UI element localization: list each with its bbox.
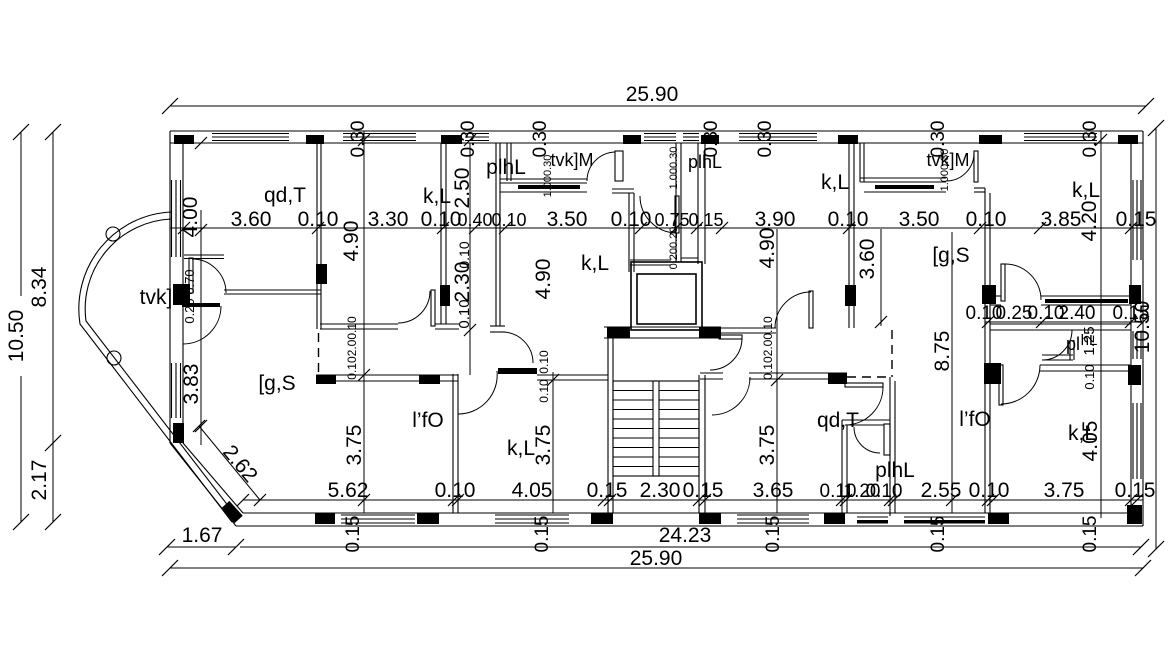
column bottom wall bbox=[315, 513, 335, 524]
wire plhL east wall bbox=[676, 143, 681, 262]
svg-text:24.23: 24.23 bbox=[659, 524, 712, 547]
dim text 3.30 row A bbox=[368, 208, 409, 231]
wire diagonal wall outer bbox=[170, 443, 236, 526]
svg-text:0.15: 0.15 bbox=[688, 210, 723, 230]
door hall to l'fO bbox=[458, 371, 497, 414]
wire niche1 sill bbox=[500, 179, 587, 183]
column bottom wall bbox=[824, 513, 845, 524]
dim text 0.10 row A bbox=[491, 210, 526, 230]
door hall to k,L center bbox=[502, 332, 533, 363]
dim text 2.40 row C bbox=[1059, 303, 1096, 324]
svg-text:plhL: plhL bbox=[486, 156, 526, 179]
label tvk]M right bbox=[927, 150, 970, 170]
dim text 0.15 bottom x1092 bbox=[1080, 516, 1101, 553]
wire apt2 hall south wall bbox=[700, 373, 847, 379]
svg-text:0.102.00.10: 0.102.00.10 bbox=[345, 316, 359, 380]
label qd,T bottom bbox=[817, 409, 859, 432]
window niche1 bbox=[500, 185, 587, 192]
wire niche2 west wall bbox=[860, 143, 864, 182]
dim line row B bbox=[237, 494, 1143, 506]
dim 4.90 c bbox=[756, 228, 779, 269]
svg-text:0.15: 0.15 bbox=[928, 516, 949, 553]
svg-text:[g,S: [g,S bbox=[258, 372, 295, 395]
dim text 3.60 row A bbox=[231, 208, 272, 231]
svg-text:0.70: 0.70 bbox=[182, 269, 197, 294]
door plhL2 bbox=[854, 424, 890, 455]
wire duct bottom bbox=[681, 258, 698, 262]
svg-text:hL: hL bbox=[1081, 332, 1098, 349]
node gS door sill bbox=[182, 303, 220, 307]
window left wall lower bbox=[172, 363, 181, 418]
label plhL bottom bbox=[875, 459, 915, 482]
svg-text:2.50: 2.50 bbox=[451, 168, 474, 209]
column l'fO north west bbox=[316, 375, 336, 384]
node hall wall stub bbox=[498, 368, 537, 374]
svg-text:0.10: 0.10 bbox=[537, 350, 551, 374]
label tvk] entry bbox=[140, 286, 173, 309]
column left wall mid bbox=[173, 284, 190, 305]
dim 10.50 right bbox=[1131, 120, 1164, 557]
column bottom wall bbox=[988, 513, 1009, 524]
node tick top wall col1 bbox=[195, 137, 207, 149]
wire duct east wall bbox=[698, 143, 705, 264]
wire balcony arc inner bbox=[85, 219, 236, 516]
wire exterior bottom wall bbox=[236, 513, 1143, 526]
column right wall c bbox=[1127, 505, 1142, 524]
dim text 0.10 row A bbox=[421, 208, 462, 231]
wire plhL2 west wall bbox=[842, 420, 847, 513]
column top wall bbox=[174, 135, 194, 144]
svg-text:l’fO: l’fO bbox=[412, 409, 444, 432]
svg-text:3.60: 3.60 bbox=[856, 239, 879, 280]
dim 10.50 left bbox=[5, 124, 30, 530]
dim 3.75 vc bbox=[756, 425, 779, 466]
wire l'fO north wall bbox=[316, 375, 458, 381]
dim text 0.30 top x940 bbox=[928, 121, 949, 158]
svg-text:3.75: 3.75 bbox=[343, 425, 366, 466]
dim line x952 bbox=[946, 232, 958, 513]
dim 2.30 v bbox=[451, 262, 474, 303]
column apt2 hall south bbox=[828, 373, 847, 384]
wire wall qd,T east bbox=[317, 143, 321, 329]
wire balcony arc outer bbox=[79, 212, 232, 522]
svg-text:l’fO: l’fO bbox=[959, 408, 991, 431]
dim line x364 bbox=[358, 131, 370, 513]
svg-text:3.30: 3.30 bbox=[368, 208, 409, 231]
svg-text:0.15: 0.15 bbox=[1116, 208, 1157, 231]
window top wall bbox=[1024, 134, 1097, 141]
label [g,S left bbox=[258, 372, 295, 395]
svg-text:0.20: 0.20 bbox=[182, 298, 197, 323]
svg-text:tvk]M: tvk]M bbox=[551, 150, 594, 170]
label plhL top-center2 bbox=[688, 152, 722, 172]
wire hall north wall bbox=[320, 324, 505, 332]
dim text 0.75 row A bbox=[654, 210, 689, 230]
window niche2 bbox=[864, 185, 946, 192]
dim 4.00 left bbox=[179, 197, 202, 238]
dim stack b bbox=[537, 350, 551, 403]
dim stack plhL bbox=[668, 147, 680, 190]
svg-text:4.90: 4.90 bbox=[756, 228, 779, 269]
dim 1.25 bath right bbox=[1081, 326, 1098, 355]
dim text 0.15 bottom x544 bbox=[532, 516, 553, 553]
svg-text:1.67: 1.67 bbox=[182, 524, 223, 547]
wire wall qd,T south bbox=[224, 290, 321, 294]
window bottom wall bbox=[495, 515, 569, 523]
window right wall lower bbox=[1133, 403, 1141, 479]
svg-text:0.200.20: 0.200.20 bbox=[668, 227, 680, 270]
svg-text:0.10: 0.10 bbox=[611, 208, 652, 231]
wire plhL west wall bbox=[629, 193, 634, 272]
door gS entry bbox=[183, 306, 221, 344]
svg-text:k,L: k,L bbox=[581, 252, 609, 275]
svg-text:2.40: 2.40 bbox=[1059, 303, 1096, 324]
svg-text:0.15: 0.15 bbox=[587, 479, 628, 502]
svg-text:8.75: 8.75 bbox=[931, 331, 954, 372]
svg-text:0.15: 0.15 bbox=[343, 516, 364, 553]
label k,L bottom-right bbox=[1068, 422, 1096, 445]
window top wall bbox=[683, 134, 699, 141]
dim text 0.30 top x470 bbox=[458, 121, 479, 158]
column apt2 living east bbox=[845, 285, 856, 306]
dim text 4.05 row B bbox=[512, 479, 553, 502]
dim text 3.85 row A bbox=[1041, 208, 1082, 231]
svg-text:0.10: 0.10 bbox=[537, 379, 551, 403]
dim 3.83 left bbox=[180, 364, 203, 405]
wire wall qd,T east dashed bbox=[318, 333, 320, 375]
svg-text:tvk]M: tvk]M bbox=[927, 150, 970, 170]
svg-text:0.10: 0.10 bbox=[298, 208, 339, 231]
svg-text:0.10: 0.10 bbox=[828, 208, 869, 231]
wire right section west wall bbox=[985, 188, 990, 513]
wire stairwell top wall bbox=[604, 327, 721, 338]
dim stack a bbox=[345, 316, 359, 380]
dim text 0.30 top x360 bbox=[348, 121, 369, 158]
column l'fO north east bbox=[419, 375, 440, 384]
dim text 3.65 row B bbox=[753, 479, 794, 502]
window bottom wall bbox=[341, 515, 415, 523]
node balcony post lower bbox=[107, 351, 121, 365]
window top wall bbox=[343, 134, 416, 141]
dim stack niche2 bbox=[939, 149, 951, 192]
dim 4.20 bbox=[1078, 201, 1101, 242]
dim 4.90 a bbox=[340, 221, 363, 262]
svg-text:k,L: k,L bbox=[821, 171, 849, 194]
svg-text:0.10: 0.10 bbox=[456, 241, 472, 268]
dim text 2.30 row B bbox=[640, 479, 681, 502]
svg-text:3.60: 3.60 bbox=[231, 208, 272, 231]
dim 2.62 diagonal bbox=[193, 420, 266, 506]
window left wall upper bbox=[172, 180, 181, 257]
dim line x1101 bbox=[1095, 131, 1107, 518]
door k,L-left bbox=[398, 290, 435, 326]
dim text 0.30 top x713 bbox=[701, 121, 722, 158]
column top wall bbox=[838, 135, 858, 144]
dim 0.10 v bbox=[456, 299, 473, 328]
column top wall bbox=[979, 135, 1002, 144]
wire apt2 living east wall bbox=[849, 143, 854, 328]
wire shaft inner bbox=[637, 274, 696, 324]
door k,L right top bbox=[1001, 264, 1041, 301]
window top wall bbox=[739, 134, 817, 141]
label [g,S right bbox=[932, 244, 969, 267]
svg-text:3.50: 3.50 bbox=[899, 208, 940, 231]
label pl bath right bbox=[1066, 334, 1080, 354]
svg-text:pl: pl bbox=[1066, 334, 1080, 354]
column top wall bbox=[306, 135, 324, 144]
svg-text:3.75: 3.75 bbox=[756, 425, 779, 466]
column top wall bbox=[441, 135, 462, 144]
svg-text:3.50: 3.50 bbox=[547, 208, 588, 231]
dim 3.60 v bbox=[856, 239, 879, 280]
dim text 0.10 row A bbox=[298, 208, 339, 231]
svg-text:0.30: 0.30 bbox=[530, 121, 551, 158]
svg-text:0.10: 0.10 bbox=[435, 479, 476, 502]
svg-text:0.10: 0.10 bbox=[966, 208, 1007, 231]
door stair exit lower bbox=[712, 377, 750, 415]
stairs flight bbox=[613, 381, 699, 476]
dim text 0.15 row A bbox=[688, 210, 723, 230]
dim text 0.10 row B bbox=[969, 479, 1010, 502]
dim text 0.15 bottom x940 bbox=[928, 516, 949, 553]
column bottom wall bbox=[417, 513, 439, 524]
dim text 0.10 row B bbox=[820, 481, 857, 502]
svg-text:0.40: 0.40 bbox=[457, 210, 492, 230]
wire apt2 hall north wall bbox=[699, 328, 776, 333]
svg-text:4.05: 4.05 bbox=[1079, 421, 1102, 462]
svg-text:3.83: 3.83 bbox=[180, 364, 203, 405]
wire l'fO2 west wall bbox=[890, 377, 895, 516]
dim line row C bbox=[982, 316, 1149, 328]
dim 4.90 b bbox=[532, 259, 555, 300]
dim text 0.10 row C bbox=[1028, 303, 1065, 324]
svg-text:4.90: 4.90 bbox=[532, 259, 555, 300]
dim text 5.62 row B bbox=[328, 479, 369, 502]
dim text 0.15 row C bbox=[1113, 303, 1150, 324]
wire niche2 link wall bbox=[974, 188, 985, 192]
column top wall bbox=[1118, 135, 1138, 144]
dim 0.10 bath right bbox=[1082, 364, 1097, 389]
wire l'fO2 west dashed bbox=[891, 330, 893, 377]
wire hall south wall east bbox=[537, 375, 608, 380]
dim text 0.25 row C bbox=[996, 303, 1033, 324]
svg-text:8.34: 8.34 bbox=[28, 266, 51, 307]
wire plhL south wall bbox=[630, 260, 671, 265]
dim line x881 bbox=[875, 229, 887, 328]
wire plhL2 north wall bbox=[842, 420, 890, 425]
dim 8.75 bbox=[931, 331, 954, 372]
door niche2 bbox=[946, 153, 974, 181]
dim text 3.50 row A bbox=[899, 208, 940, 231]
column right section b bbox=[984, 363, 1001, 384]
dim 3.75 vb bbox=[532, 425, 555, 466]
label k,L bottom-center bbox=[507, 437, 535, 460]
svg-text:k,L: k,L bbox=[507, 437, 535, 460]
wire k,L right south wall bbox=[990, 296, 1001, 305]
dim 2.50 bbox=[451, 168, 474, 209]
column right section a bbox=[982, 285, 996, 304]
window bottom wall dark bbox=[857, 517, 888, 524]
dim text 3.50 row A bbox=[547, 208, 588, 231]
svg-text:0.10: 0.10 bbox=[421, 208, 462, 231]
door plhL top bbox=[640, 196, 679, 233]
dim text 0.30 top x542 bbox=[530, 121, 551, 158]
svg-text:10.50: 10.50 bbox=[5, 310, 28, 363]
label l'fO left bbox=[412, 409, 444, 432]
dim line x777 bbox=[771, 229, 783, 513]
column stairwell top west bbox=[607, 327, 630, 338]
column top wall bbox=[701, 135, 719, 144]
dim line row A bbox=[170, 222, 1143, 234]
svg-text:0.30: 0.30 bbox=[348, 121, 369, 158]
column left wall low bbox=[173, 423, 184, 443]
door apt2 living bbox=[775, 291, 813, 328]
label 4.05 rot overlap bbox=[1079, 421, 1102, 462]
dim text 2.55 row B bbox=[921, 479, 962, 502]
door stair exit upper bbox=[710, 335, 742, 370]
column right wall b bbox=[1128, 365, 1141, 385]
svg-text:0.15: 0.15 bbox=[1115, 479, 1156, 502]
column right wall a bbox=[1129, 285, 1141, 304]
svg-text:0.10: 0.10 bbox=[969, 479, 1010, 502]
svg-text:qd,T: qd,T bbox=[817, 409, 859, 432]
svg-text:0.30: 0.30 bbox=[458, 121, 479, 158]
svg-text:k,L: k,L bbox=[423, 185, 451, 208]
dim text 0.10 row A bbox=[828, 208, 869, 231]
window bottom wall bbox=[737, 515, 809, 523]
dim text 0.15 bottom x775 bbox=[763, 516, 784, 553]
label plhL top-center bbox=[486, 156, 526, 179]
wire shaft outer bbox=[631, 262, 702, 330]
wire niche1 pier bbox=[615, 151, 623, 181]
dim text 0.15 row A bbox=[1116, 208, 1157, 231]
wire bath-right north wall bbox=[990, 324, 1131, 330]
svg-text:0.10: 0.10 bbox=[491, 210, 526, 230]
label plhL top-right small bbox=[1081, 332, 1098, 349]
door bath-right bbox=[1042, 330, 1072, 360]
door tvk entry bbox=[184, 255, 226, 293]
wire l'fO east wall bbox=[453, 374, 458, 513]
dim stack c bbox=[761, 316, 775, 380]
svg-text:2.17: 2.17 bbox=[28, 460, 51, 501]
column stairwell top east bbox=[699, 327, 721, 338]
column top wall bbox=[623, 135, 641, 144]
column bottom wall bbox=[699, 513, 721, 524]
dim 8.34 2.17 left bbox=[28, 124, 61, 530]
wire niche1 link wall bbox=[612, 189, 634, 193]
wire bath-right south wall bbox=[1040, 365, 1131, 371]
svg-text:5.62: 5.62 bbox=[328, 479, 369, 502]
svg-text:0.102.00.10: 0.102.00.10 bbox=[761, 316, 775, 380]
dim text 0.15 bottom x355 bbox=[343, 516, 364, 553]
wire bath-right inner walls bbox=[1042, 340, 1074, 360]
svg-text:3.75: 3.75 bbox=[532, 425, 555, 466]
svg-text:0.10: 0.10 bbox=[1082, 364, 1097, 389]
node balcony post upper bbox=[106, 227, 120, 241]
wire wall k,L-left east bbox=[441, 143, 446, 324]
wire exterior left wall bbox=[170, 131, 183, 443]
svg-text:0.15: 0.15 bbox=[532, 516, 553, 553]
column bottom wall bbox=[591, 513, 613, 524]
label qd,T top-left bbox=[264, 184, 306, 207]
wire niche2 sill bbox=[860, 178, 946, 182]
svg-text:0.30: 0.30 bbox=[755, 121, 776, 158]
svg-text:3.65: 3.65 bbox=[753, 479, 794, 502]
svg-text:4.20: 4.20 bbox=[1078, 201, 1101, 242]
dim stack plhL2 bbox=[668, 227, 680, 270]
svg-text:25.90: 25.90 bbox=[626, 83, 679, 106]
label k,L top-right bbox=[1072, 179, 1100, 202]
window top wall bbox=[212, 134, 289, 141]
dim text 3.90 row A bbox=[755, 208, 796, 231]
svg-text:0.15: 0.15 bbox=[763, 516, 784, 553]
wire niche2 pier bbox=[974, 151, 978, 182]
dim 3.75 va bbox=[343, 425, 366, 466]
dim 25.90 bottom bbox=[162, 547, 1151, 576]
dim text 0.15 row B bbox=[683, 479, 724, 502]
svg-text:k,L: k,L bbox=[1072, 179, 1100, 202]
dim 1.67 bottom bbox=[159, 524, 244, 555]
svg-text:3.90: 3.90 bbox=[755, 208, 796, 231]
window right wall mid bbox=[1133, 331, 1141, 359]
svg-text:qd,T: qd,T bbox=[264, 184, 306, 207]
dim line x201 bbox=[195, 210, 207, 445]
dim text 0.10 row B bbox=[866, 481, 903, 502]
svg-text:0.15: 0.15 bbox=[1080, 516, 1101, 553]
window k,L right south bbox=[1041, 296, 1131, 305]
wire diagonal wall inner bbox=[183, 443, 243, 513]
wire exterior right wall bbox=[1131, 131, 1143, 526]
wire apt2 hall south dashed bbox=[847, 376, 890, 378]
label tvk]M center bbox=[551, 150, 594, 170]
dim text 0.15 row B bbox=[1115, 479, 1156, 502]
wire stairwell west wall bbox=[608, 338, 613, 513]
svg-text:1.000.30: 1.000.30 bbox=[668, 147, 680, 190]
dim 0.70 left bbox=[182, 269, 197, 323]
dim text 0.15 row B bbox=[587, 479, 628, 502]
wire niche1 west wall bbox=[496, 143, 511, 326]
door niche1 bbox=[587, 152, 615, 181]
svg-text:4.00: 4.00 bbox=[179, 197, 202, 238]
label k,L center bbox=[581, 252, 609, 275]
dim text 0.30 top x767 bbox=[755, 121, 776, 158]
svg-text:0.15: 0.15 bbox=[1113, 303, 1150, 324]
dim text 0.10 row A bbox=[966, 208, 1007, 231]
label k,L apt2 bbox=[821, 171, 849, 194]
svg-text:4.05: 4.05 bbox=[512, 479, 553, 502]
dim text 0.10 row A bbox=[611, 208, 652, 231]
door qd,T 2 bbox=[845, 383, 883, 425]
dim 24.23 bottom bbox=[240, 524, 1149, 555]
svg-text:[g,S: [g,S bbox=[932, 244, 969, 267]
dim text 0.40 row A bbox=[457, 210, 492, 230]
window top wall bbox=[644, 134, 676, 141]
window bottom wall dark bbox=[904, 517, 985, 524]
wire exterior top wall bbox=[170, 131, 1143, 143]
dim text 0.10 row B bbox=[435, 479, 476, 502]
dim text 3.75 row B bbox=[1044, 479, 1085, 502]
label l'fO right bbox=[959, 408, 991, 431]
dim line x470 bbox=[464, 134, 476, 375]
column qd,T east bbox=[316, 264, 327, 284]
dim text 1.20 row B bbox=[844, 481, 881, 502]
svg-text:0.15: 0.15 bbox=[683, 479, 724, 502]
svg-text:0.30: 0.30 bbox=[1080, 121, 1101, 158]
door k,L bottom right bbox=[999, 365, 1040, 405]
column diagonal corner bbox=[221, 501, 243, 523]
svg-text:0.10: 0.10 bbox=[456, 299, 473, 328]
svg-text:25.90: 25.90 bbox=[630, 547, 683, 570]
